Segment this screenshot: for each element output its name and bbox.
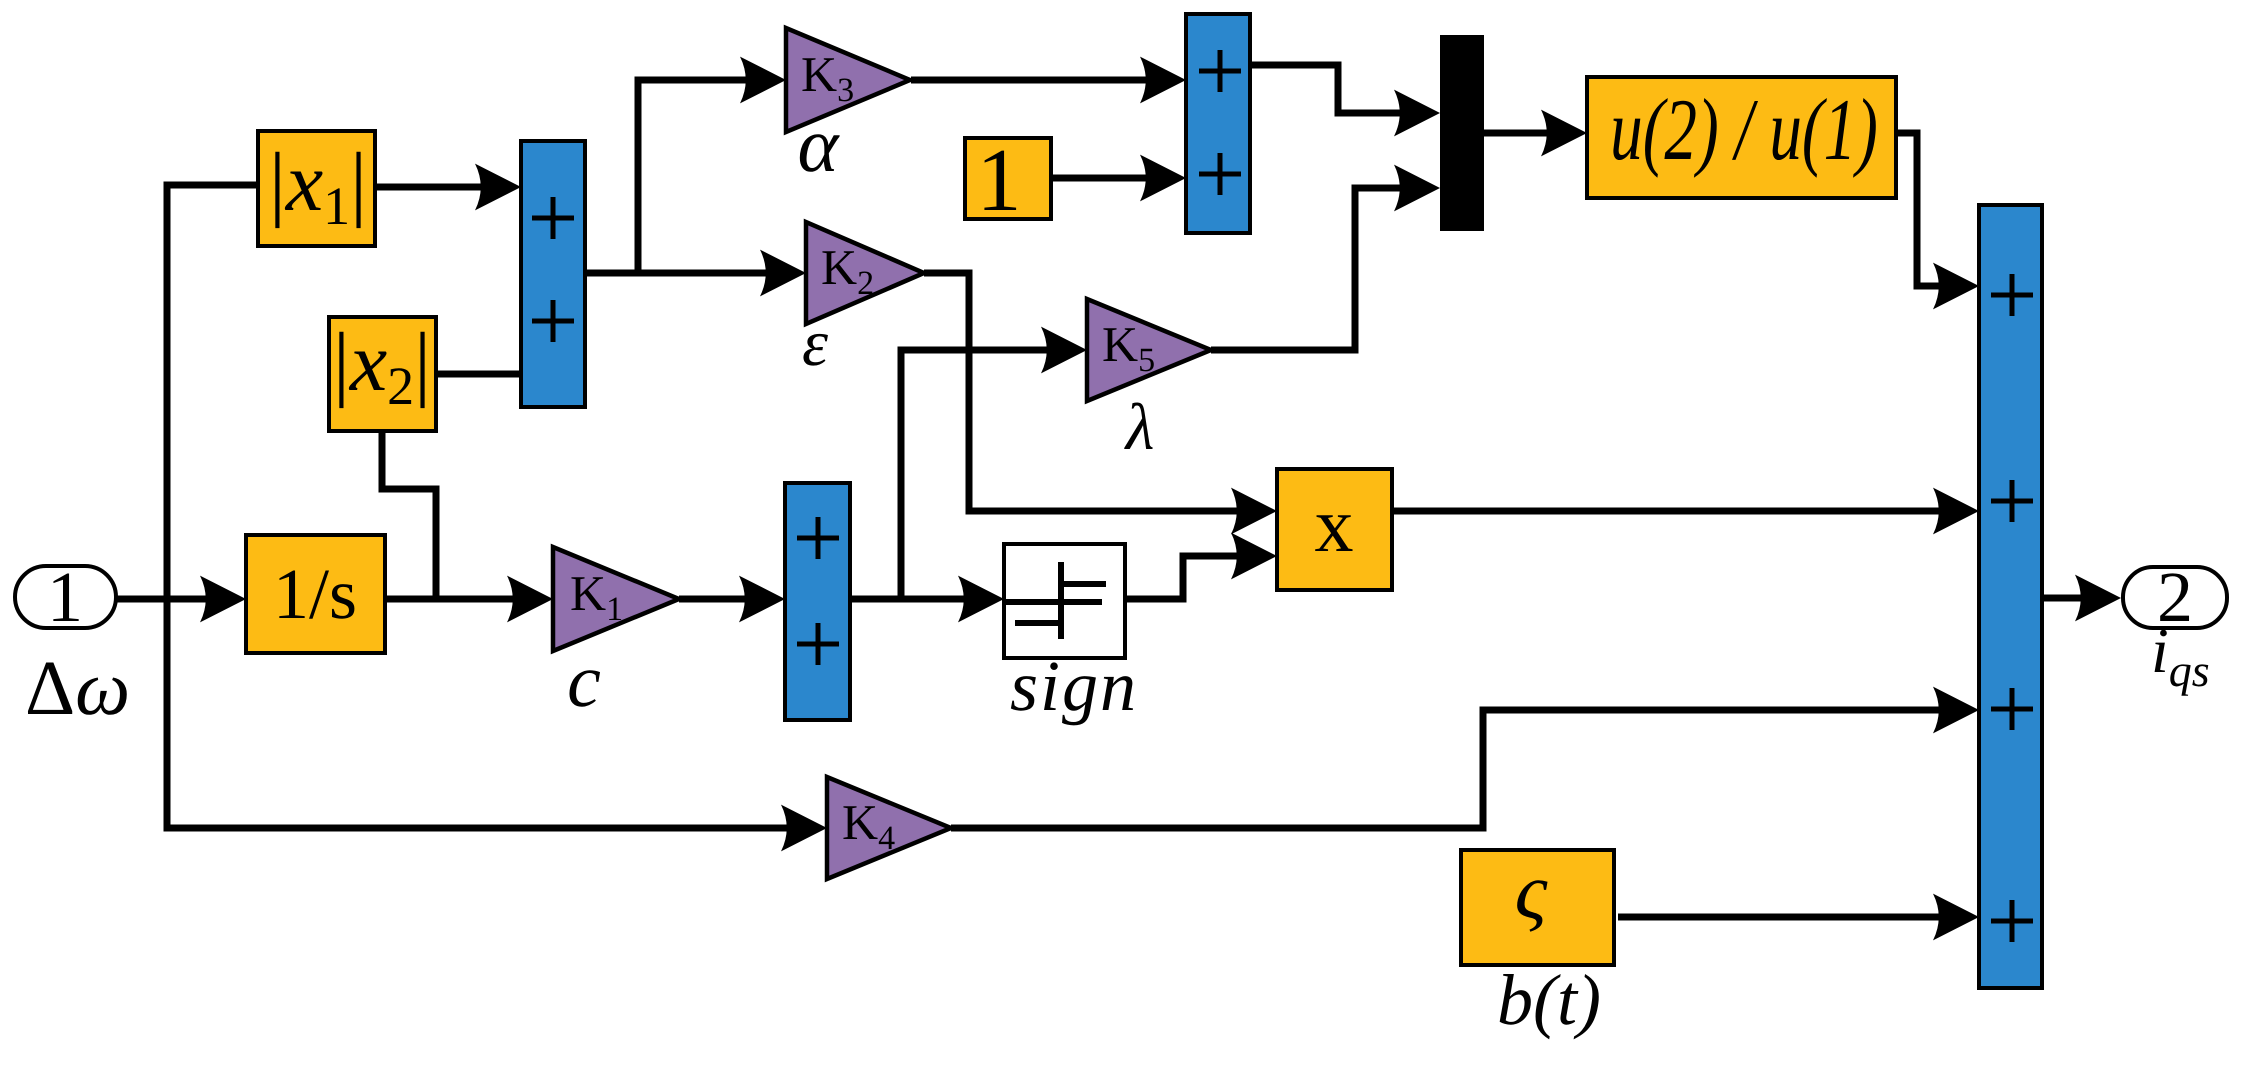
svg-text:λ: λ — [1124, 391, 1155, 464]
svg-text:Δω: Δω — [25, 644, 130, 731]
svg-text:x: x — [1315, 481, 1354, 568]
svg-text:ε: ε — [802, 307, 828, 380]
svg-text:c: c — [567, 639, 601, 723]
svg-text:sign: sign — [1010, 646, 1138, 726]
svg-text:α: α — [798, 101, 841, 188]
svg-text:ς: ς — [1515, 848, 1548, 936]
svg-text:b(t): b(t) — [1497, 960, 1601, 1040]
svg-text:1: 1 — [977, 131, 1022, 230]
svg-text:1: 1 — [47, 557, 83, 637]
svg-text:u(2) / u(1): u(2) / u(1) — [1610, 82, 1878, 179]
svg-text:|x2|: |x2| — [333, 316, 431, 416]
svg-text:|x1|: |x1| — [269, 136, 367, 236]
svg-text:1/s: 1/s — [273, 554, 357, 634]
